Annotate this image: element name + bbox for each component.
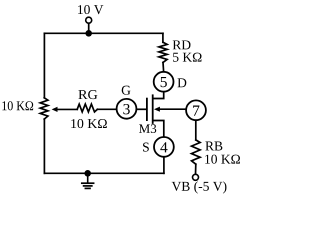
wire: gate lead bbox=[136, 108, 146, 110]
wire: right branch from rail to RD bbox=[162, 33, 164, 42]
label RD bbox=[173, 40, 191, 49]
wire: RG to node 3 bbox=[97, 108, 116, 110]
potentiometer wiper arrow bbox=[57, 108, 78, 110]
wire: node 7 to RB bbox=[195, 121, 197, 140]
resistor RD (zigzag) bbox=[159, 42, 167, 62]
label RB bbox=[205, 142, 222, 151]
terminal VB (open circle) bbox=[193, 174, 199, 180]
wire: RB to VB terminal bbox=[195, 164, 197, 174]
wire: source lead bbox=[154, 121, 164, 137]
junction dot at ground bbox=[84, 170, 91, 177]
wire: left branch upper bbox=[43, 33, 45, 98]
wire: top supply rail bbox=[44, 32, 162, 34]
wire: supply terminal stub bbox=[88, 24, 90, 31]
label 10 KΩ (potentiometer) bbox=[2, 101, 33, 110]
node 4 circle bbox=[154, 137, 174, 157]
resistor RG (zigzag) bbox=[77, 104, 97, 112]
label RG bbox=[78, 90, 97, 99]
junction dot on supply rail bbox=[85, 30, 92, 37]
label 10 V bbox=[78, 5, 103, 14]
wire: bottom rail bbox=[44, 172, 163, 174]
potentiometer 10 KΩ (zigzag) bbox=[40, 98, 48, 119]
label S bbox=[143, 143, 149, 152]
power terminal 10 V (open circle) bbox=[86, 17, 92, 23]
label 5 KΩ bbox=[173, 53, 201, 62]
label 10 KΩ (RB) bbox=[205, 155, 240, 164]
wire: drain lead bbox=[154, 92, 164, 99]
label D bbox=[178, 78, 187, 87]
label M3 bbox=[139, 124, 156, 133]
MOSFET M3 channel bar bbox=[152, 95, 154, 123]
ground symbol bbox=[87, 173, 89, 183]
node 7 circle bbox=[186, 100, 206, 120]
node 5 circle bbox=[154, 72, 174, 92]
label G bbox=[122, 86, 131, 95]
MOSFET M3 gate bar bbox=[146, 99, 148, 121]
wire: RD to node 5 bbox=[162, 62, 165, 71]
node 3 circle bbox=[117, 99, 137, 119]
resistor RB (zigzag) bbox=[192, 140, 201, 164]
wire: left branch lower bbox=[43, 119, 45, 173]
label VB (-5 V) bbox=[172, 181, 227, 193]
wire: node 4 to bottom rail bbox=[163, 157, 165, 173]
MOSFET bulk arrow (body to node 7) bbox=[159, 108, 186, 110]
label 10 KΩ (RG) bbox=[71, 119, 107, 128]
